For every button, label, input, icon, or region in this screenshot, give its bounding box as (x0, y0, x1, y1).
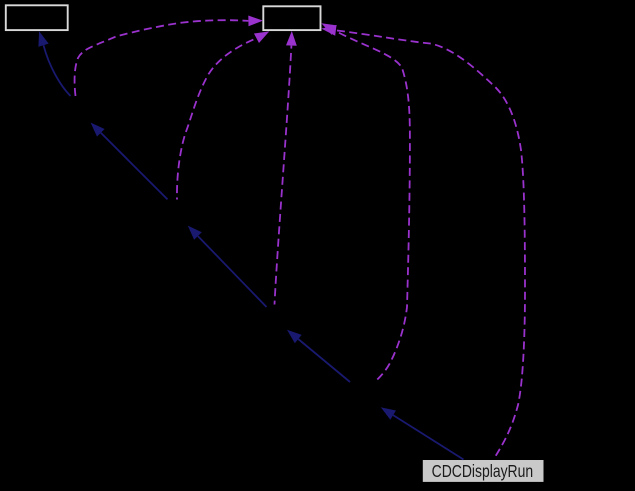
svg-text:CDCDisplayRun: CDCDisplayRun (432, 461, 534, 481)
